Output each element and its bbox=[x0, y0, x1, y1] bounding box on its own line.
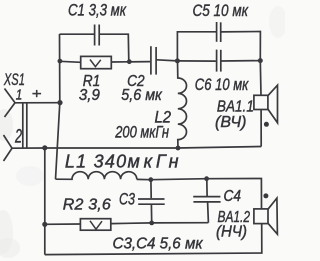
svg-text:L1 340: L1 340 bbox=[65, 152, 126, 172]
connector XS1 pin 2 chevron bbox=[4, 135, 13, 161]
wire C4 down to shunt rail bbox=[207, 202, 210, 223]
wire pin1 to bus bbox=[15, 102, 60, 104]
svg-text:C4: C4 bbox=[224, 188, 242, 205]
wire to BA1.1 bbox=[259, 61, 262, 96]
node C6-C5-BA1.1 bbox=[258, 58, 263, 63]
node C3-R2 bbox=[149, 221, 154, 226]
wire node B to C4 bbox=[206, 179, 208, 197]
node pin1-bus bbox=[57, 100, 62, 105]
node bus-R1 bbox=[58, 59, 63, 64]
wire left bus R2 row bbox=[45, 223, 81, 225]
capacitor C5 bbox=[216, 22, 218, 42]
capacitor C3 bbox=[138, 198, 165, 200]
resistor R1 bbox=[81, 56, 112, 68]
capacitor C6 bbox=[216, 50, 218, 72]
svg-text:(НЧ): (НЧ) bbox=[216, 224, 247, 241]
resistor R2 bbox=[80, 219, 110, 231]
wire C5 branch right bbox=[221, 32, 260, 61]
BA1.1 polarity dot bbox=[264, 122, 269, 127]
wire node to C6 bbox=[177, 60, 216, 62]
speaker BA1.2 bbox=[254, 209, 268, 224]
svg-text:XS1: XS1 bbox=[3, 70, 25, 89]
wire C1 branch left bbox=[60, 33, 95, 35]
wire R1 to C2 bbox=[111, 61, 150, 63]
speaker BA1.1 bbox=[254, 95, 268, 109]
wire C5 branch left bbox=[177, 32, 216, 61]
connector XS1 pin 1 chevron bbox=[5, 89, 16, 118]
svg-text:C3,C4 5,6 мк: C3,C4 5,6 мк bbox=[113, 236, 204, 253]
wire main bus from C1 branch to L1 bbox=[56, 34, 60, 179]
svg-text:R2 3,6: R2 3,6 bbox=[63, 197, 111, 214]
node L2-rail bbox=[176, 146, 181, 151]
inductor L2 bbox=[178, 61, 187, 148]
connector XS1 body lines bbox=[22, 103, 24, 148]
node A L1-C3 bbox=[148, 177, 153, 182]
svg-text:(ВЧ): (ВЧ) bbox=[215, 114, 247, 131]
svg-text:C5 10 мк: C5 10 мк bbox=[193, 1, 249, 20]
svg-text:5,6 мк: 5,6 мк bbox=[121, 87, 163, 104]
svg-text:3,9: 3,9 bbox=[79, 87, 100, 104]
wire C6 to speaker node bbox=[221, 60, 260, 62]
svg-text:C6 10 мк: C6 10 мк bbox=[195, 76, 249, 94]
node pin2-leftbus bbox=[42, 145, 47, 150]
wire pin2 rail to BA1.1 bbox=[12, 147, 261, 149]
svg-text:C1 3,3 мк: C1 3,3 мк bbox=[68, 2, 127, 20]
capacitor C1 bbox=[94, 25, 96, 46]
capacitor C4 bbox=[193, 196, 220, 198]
wire bus to R1 bbox=[60, 61, 81, 62]
wire L1 to nodes to BA1.2 bbox=[137, 179, 262, 209]
node B L1-C4 bbox=[204, 176, 209, 181]
svg-text:200 мкГн: 200 мкГн bbox=[114, 122, 169, 141]
wire left bus bbox=[44, 148, 46, 255]
wire bottom rail bbox=[45, 224, 262, 255]
label plus sign bbox=[32, 90, 41, 97]
inductor L1 bbox=[56, 172, 137, 180]
capacitor C2 bbox=[150, 46, 152, 74]
wire C2 to node bbox=[157, 60, 178, 61]
wire R2 to node C to C4 corner bbox=[111, 222, 209, 225]
node C2-C5-L2 bbox=[175, 58, 180, 63]
svg-text:1: 1 bbox=[16, 88, 22, 104]
wire C3 to node C bbox=[150, 204, 152, 223]
wire node A to C3 bbox=[150, 180, 152, 199]
svg-text:C3: C3 bbox=[119, 190, 135, 209]
svg-text:BA1.1: BA1.1 bbox=[217, 99, 254, 116]
wire C1 branch right bbox=[100, 34, 129, 61]
svg-text:2: 2 bbox=[14, 126, 22, 147]
wire BA1.1 to rail bbox=[260, 110, 262, 147]
node leftbus-R2 bbox=[42, 222, 47, 227]
BA1.2 polarity dot bbox=[263, 193, 268, 198]
node C1-R1 right bbox=[127, 59, 132, 64]
